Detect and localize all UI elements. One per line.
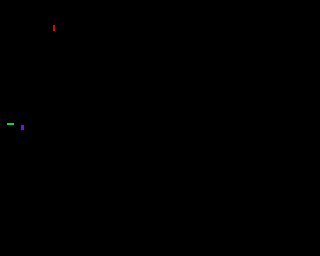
red bar sprite <box>53 25 55 31</box>
green bar sprite <box>7 123 14 125</box>
violet bar sprite <box>21 125 24 131</box>
